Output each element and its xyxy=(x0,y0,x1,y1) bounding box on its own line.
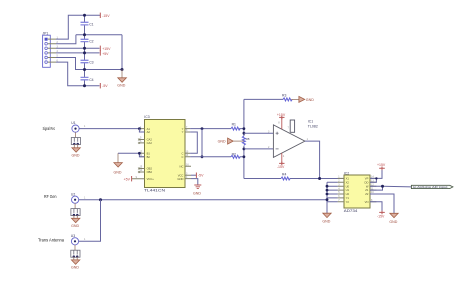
svg-text:Y: Y xyxy=(182,127,184,131)
supply -15V (top) xyxy=(100,13,110,18)
ground (Trans Antenna) xyxy=(71,260,80,270)
node B1 junction xyxy=(138,152,141,155)
ground (top-right of power block) xyxy=(117,70,126,88)
ground (IC3 GND pin, earth bars) xyxy=(191,179,201,196)
svg-text:A1: A1 xyxy=(147,127,151,131)
svg-text:GND: GND xyxy=(71,266,79,270)
resistor R2 xyxy=(231,152,240,158)
wire IC3 Y(7) to R1 node xyxy=(190,128,231,130)
svg-text:AD734: AD734 xyxy=(344,209,358,213)
svg-text:W: W xyxy=(366,184,369,188)
svg-text:+15V: +15V xyxy=(102,47,111,51)
svg-text:Y2: Y2 xyxy=(346,200,350,204)
wire DD tie to VP xyxy=(370,178,376,182)
svg-text:A2: A2 xyxy=(147,130,151,134)
supply +5V xyxy=(100,50,109,56)
svg-text:GND: GND xyxy=(177,177,183,181)
svg-text:DD: DD xyxy=(365,180,369,184)
svg-text:Z2: Z2 xyxy=(365,192,369,196)
svg-text:C1: C1 xyxy=(89,22,93,26)
supply +5V (IC3 VCC+) xyxy=(124,176,132,181)
node bus junctions xyxy=(243,127,246,158)
svg-text:X2: X2 xyxy=(346,180,350,184)
ground (IC2 Z2) xyxy=(389,213,398,224)
svg-text:Signal Rec: Signal Rec xyxy=(43,126,56,131)
svg-text:NC: NC xyxy=(180,164,184,168)
svg-text:C: C xyxy=(181,152,183,156)
svg-text:-15V: -15V xyxy=(277,165,285,169)
node chain junctions xyxy=(326,185,329,201)
node W junction xyxy=(381,185,384,188)
wire U3 up to RF net xyxy=(79,200,101,242)
svg-text:CA2: CA2 xyxy=(147,141,153,145)
svg-text:OB2: OB2 xyxy=(147,167,153,171)
gate box (op-amp power gate) xyxy=(288,120,295,132)
svg-text:GND: GND xyxy=(389,220,397,224)
wire bus to op-amp + input xyxy=(244,132,274,134)
supply -15V (op-amp V-) xyxy=(277,153,285,169)
wire op-amp output down to feedback row xyxy=(305,141,320,178)
resistor R4 xyxy=(281,173,290,180)
svg-text:TL082: TL082 xyxy=(308,125,318,129)
svg-text:CA2: CA2 xyxy=(147,138,153,142)
svg-text:-15V: -15V xyxy=(102,14,110,18)
svg-text:C4: C4 xyxy=(89,78,93,82)
IC2 left pin stubs xyxy=(338,178,344,201)
svg-text:RF Gen: RF Gen xyxy=(44,194,57,199)
svg-text:U0: U0 xyxy=(346,184,350,188)
svg-text:R4: R4 xyxy=(282,173,286,177)
IC2 pin names xyxy=(346,177,369,204)
wire bus to op-amp - input xyxy=(244,148,274,150)
node output/feedback junction xyxy=(318,177,321,180)
svg-text:to Arduino AD input: to Arduino AD input xyxy=(413,185,448,189)
wire JP1 pin3 +15V row xyxy=(56,47,100,49)
ground (IC3 B inputs) xyxy=(114,153,123,174)
connector JP1 xyxy=(42,31,58,67)
supply -15V (IC2 VN) xyxy=(370,202,385,219)
wire right gnd bus xyxy=(121,35,123,70)
wire U2 long net to IC2 input chain xyxy=(79,199,327,201)
wire A2 branch xyxy=(139,129,144,132)
svg-text:Y: Y xyxy=(182,130,184,134)
connector U2 shield xyxy=(71,203,80,218)
svg-text:GND: GND xyxy=(72,153,80,157)
resistor R3 xyxy=(282,94,299,101)
ground (RF Gen) xyxy=(71,218,80,228)
resistor R1 xyxy=(231,123,244,131)
svg-text:C: C xyxy=(181,155,183,159)
svg-text:GND: GND xyxy=(218,139,226,143)
ground (mid divider, arrow right) xyxy=(218,138,244,144)
capacitor C4 xyxy=(81,77,94,82)
wire chain stubs to pins X2..Y2 xyxy=(327,182,338,202)
supply +15V (IC2 VP) xyxy=(370,163,386,178)
wire summing bus vertical xyxy=(243,99,245,178)
wire bus top row to R3 xyxy=(244,98,283,100)
IC3 pin numbers xyxy=(136,126,190,179)
wire C1-C2 junction row to right gnd bus xyxy=(76,34,122,36)
svg-text:+5V: +5V xyxy=(124,177,131,181)
node Y output junction xyxy=(201,127,204,130)
svg-text:Y1: Y1 xyxy=(346,196,350,200)
resistor R8 (vertical, to gnd tap) xyxy=(242,136,249,145)
wire B1/B2 net from gnd xyxy=(118,153,145,157)
svg-text:GND: GND xyxy=(114,170,122,174)
svg-text:OB2: OB2 xyxy=(147,170,153,174)
svg-text:+5V: +5V xyxy=(102,52,109,56)
svg-text:X1: X1 xyxy=(346,177,350,181)
IC3 right pin stubs xyxy=(185,129,191,179)
svg-text:+15V: +15V xyxy=(377,163,386,167)
svg-text:VP: VP xyxy=(365,177,369,181)
wire capacitor bus vertical segments xyxy=(84,15,86,85)
wire JP1 pin6 to -5V row xyxy=(56,62,100,86)
svg-text:GND: GND xyxy=(71,224,79,228)
wire W output to flag xyxy=(370,185,411,188)
svg-text:Z1: Z1 xyxy=(365,188,369,192)
wire JP1 pin1 to -15V rail xyxy=(56,15,100,39)
ground (R3, arrow right) xyxy=(299,96,314,102)
svg-text:JP1: JP1 xyxy=(42,31,48,35)
svg-text:VN: VN xyxy=(365,200,369,204)
node DD/VP tie xyxy=(375,177,377,179)
op-amp IC1 TL082 xyxy=(273,119,318,157)
IC3 pin names xyxy=(147,127,184,181)
wire Y(8) loop to C pin 10 xyxy=(190,132,197,153)
connector U2 (RF Gen) xyxy=(71,192,86,203)
capacitor C2 xyxy=(81,39,94,43)
wire Z1 feedback tie to W xyxy=(370,186,383,190)
svg-text:+15V: +15V xyxy=(277,113,286,117)
wire JP1 pin4 +5V row xyxy=(56,52,100,54)
wire C pin13 row through R2 to bus xyxy=(190,156,244,158)
svg-text:B1: B1 xyxy=(147,152,151,156)
wire IC2 input chain vertical xyxy=(326,182,328,213)
connector U3 shield xyxy=(71,245,80,260)
svg-text:GND: GND xyxy=(117,84,125,88)
node RF junction xyxy=(99,198,102,201)
svg-text:IC3: IC3 xyxy=(144,115,149,119)
IC U-IC2 AD734 body xyxy=(344,171,370,212)
wire feedback row (bus to IC2 X1) xyxy=(244,178,344,180)
connector U3 (Trans Antenna) xyxy=(71,234,86,245)
svg-text:C2: C2 xyxy=(89,40,93,44)
svg-text:-5V: -5V xyxy=(198,174,204,178)
IC3 unconnected pin x-marks xyxy=(138,139,140,174)
IC2 right pin stubs xyxy=(370,178,376,201)
svg-text:B2: B2 xyxy=(147,155,151,159)
net flag to Arduino AD input xyxy=(411,185,453,189)
node junction dots on capacitor bus xyxy=(83,14,124,87)
supply -5V (bottom left) xyxy=(100,83,108,88)
svg-text:U2: U2 xyxy=(346,192,350,196)
wire U1 to IC3 A1 xyxy=(79,128,139,130)
wire JP1 pin2 riser to C1/C2 junction row xyxy=(56,35,76,44)
svg-text:-15V: -15V xyxy=(377,214,385,218)
wire Y(7) loop down to C pin 13 row xyxy=(201,129,203,157)
svg-text:Trans Antenna: Trans Antenna xyxy=(38,238,65,243)
svg-text:R8: R8 xyxy=(246,137,250,141)
node A1/A2 tie junction xyxy=(138,127,141,130)
svg-text:GND: GND xyxy=(322,219,330,223)
capacitor C3 xyxy=(81,60,94,64)
capacitor C1 xyxy=(81,22,94,26)
wire JP1 pin5 to gnd row xyxy=(56,58,122,70)
svg-text:IC1: IC1 xyxy=(308,119,313,123)
svg-text:VCC: VCC xyxy=(178,173,184,177)
svg-text:R1: R1 xyxy=(232,123,236,127)
svg-text:GND: GND xyxy=(193,192,201,196)
svg-text:IC2: IC2 xyxy=(344,171,349,175)
ground (IC2 input chain) xyxy=(322,213,331,223)
IC2 pin numbers xyxy=(338,176,374,202)
supply +15V (op-amp V+) xyxy=(277,113,286,129)
IC3 left pin stubs xyxy=(132,129,145,179)
svg-text:GND: GND xyxy=(306,98,314,102)
ground (Signal Rec) xyxy=(72,148,81,158)
wire Z2 to gnd xyxy=(370,194,394,213)
supply -5V (IC3 VCC) xyxy=(191,173,204,178)
svg-text:C3: C3 xyxy=(89,61,93,65)
connector U1 (Signal Rec) xyxy=(71,121,86,132)
supply +15V xyxy=(100,46,111,51)
svg-text:-5V: -5V xyxy=(102,84,108,88)
svg-text:TL441CN: TL441CN xyxy=(144,189,166,193)
node bottom loop junction xyxy=(201,155,204,158)
svg-text:U1: U1 xyxy=(346,188,350,192)
svg-text:VCC+: VCC+ xyxy=(147,177,155,181)
IC U-IC3 TL441CN body xyxy=(144,115,185,193)
connector U1 shield xyxy=(71,132,80,148)
